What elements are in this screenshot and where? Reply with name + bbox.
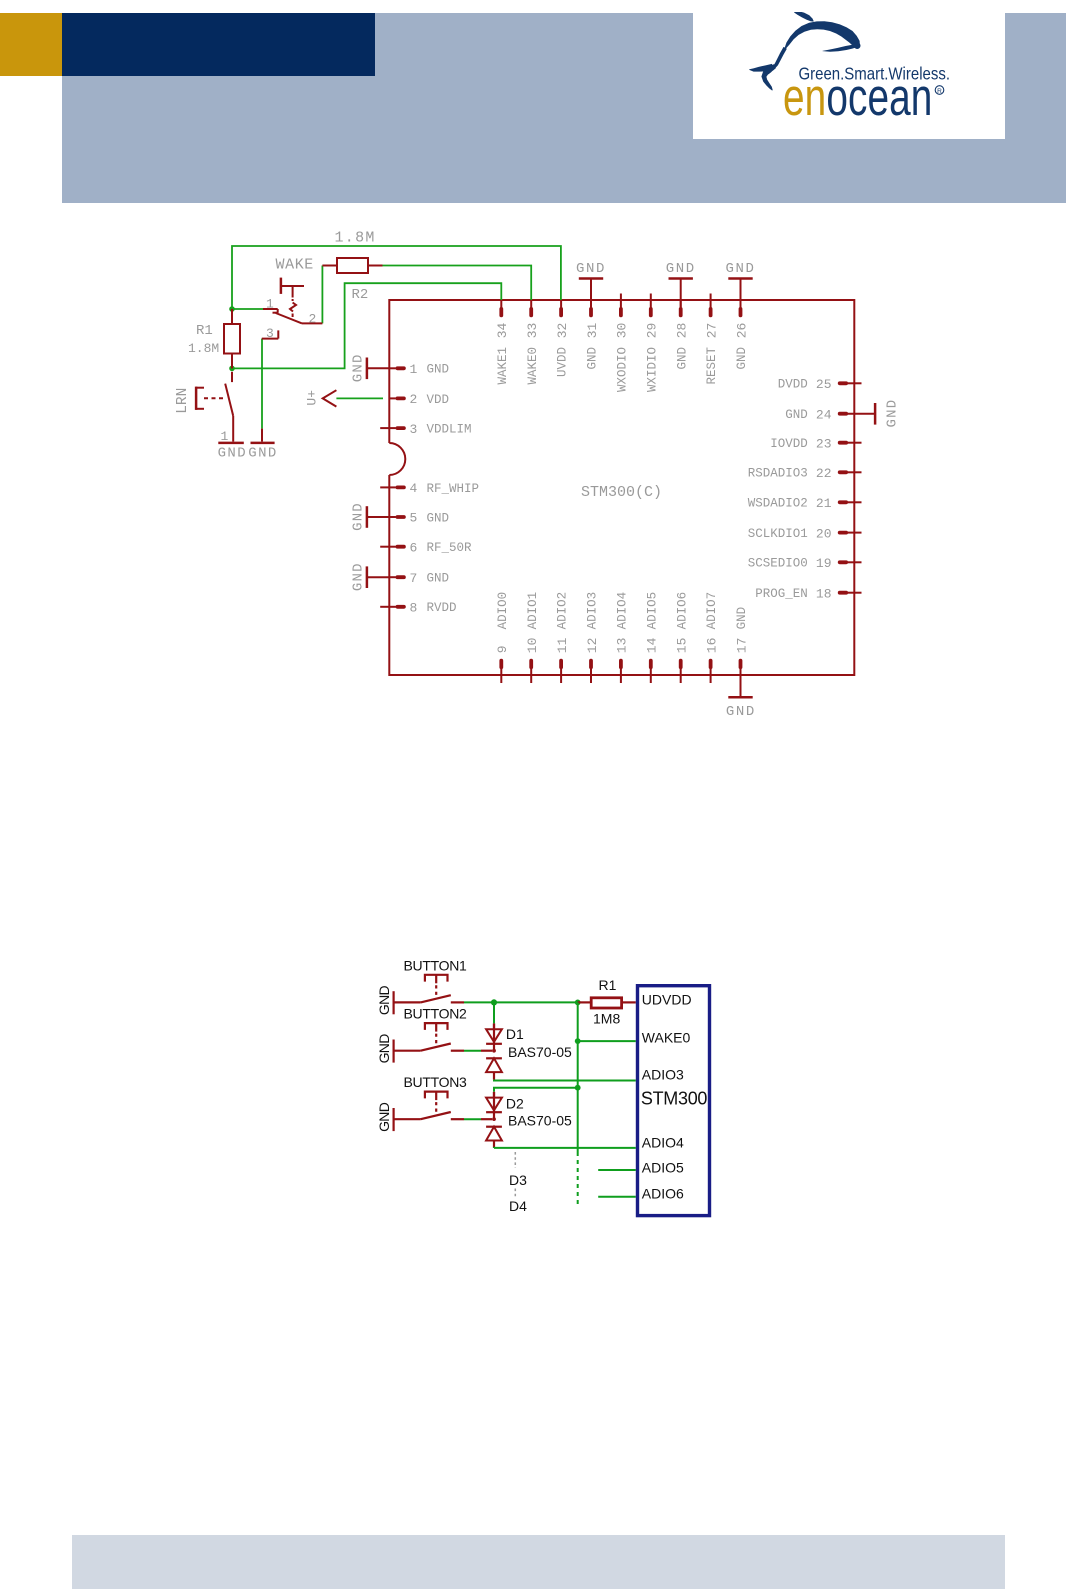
- dashed gray line through D3 D4: [514, 1152, 516, 1199]
- dolphin belly line: [773, 47, 787, 68]
- svg-text:1.8M: 1.8M: [335, 230, 376, 247]
- svg-text:WXODIO: WXODIO: [616, 347, 630, 392]
- svg-text:1.8M: 1.8M: [188, 341, 219, 356]
- pin 1 GND (left): [389, 362, 449, 377]
- svg-text:6: 6: [410, 540, 418, 555]
- svg-text:GND: GND: [427, 511, 450, 525]
- svg-text:9: 9: [495, 645, 510, 653]
- wire switch pin2 to R2 left lead: [321, 266, 323, 324]
- wire net 1.8M top: R1.1 / switch pin1 to UVDD pin32: [232, 246, 561, 309]
- svg-text:VDD: VDD: [427, 393, 450, 407]
- svg-text:ADIO5: ADIO5: [642, 1159, 684, 1175]
- svg-text:WAKE: WAKE: [276, 257, 314, 274]
- pin 31 GND (top): [585, 300, 600, 370]
- svg-text:STM300: STM300: [641, 1088, 708, 1108]
- ground symbol above pin at x=591: [576, 261, 606, 307]
- pin 18 PROG_EN (right): [755, 586, 861, 601]
- svg-text:D3: D3: [509, 1172, 527, 1188]
- svg-text:RF_WHIP: RF_WHIP: [427, 482, 480, 496]
- svg-text:20: 20: [816, 526, 832, 541]
- wire button2 to D1 center: [464, 1050, 492, 1052]
- wire ADIO6 stub: [598, 1196, 636, 1198]
- svg-text:GND: GND: [376, 1034, 392, 1064]
- ground symbol above pin at x=681: [666, 261, 696, 307]
- svg-text:U+: U+: [304, 390, 319, 406]
- svg-text:32: 32: [555, 323, 570, 339]
- header navy block: [62, 13, 375, 76]
- svg-text:28: 28: [675, 323, 690, 339]
- svg-text:R1: R1: [599, 977, 617, 993]
- pin 12 ADIO3 (bottom): [585, 592, 600, 683]
- svg-text:GND: GND: [218, 446, 247, 462]
- svg-text:4: 4: [410, 481, 418, 496]
- svg-text:GND: GND: [726, 704, 756, 720]
- header blue-gray band: [62, 13, 1066, 203]
- wire switch pin3 to ground: [261, 339, 263, 429]
- svg-text:BAS70-05: BAS70-05: [508, 1044, 572, 1060]
- svg-text:34: 34: [495, 322, 510, 338]
- svg-text:GND: GND: [376, 986, 392, 1016]
- svg-text:23: 23: [816, 436, 832, 451]
- svg-text:17: 17: [734, 638, 749, 654]
- pin 10 ADIO1 (bottom): [525, 592, 540, 683]
- wire switch pin1: [232, 308, 263, 310]
- pin 25 DVDD (right): [778, 377, 862, 392]
- pin 28 GND (top): [675, 300, 690, 370]
- pin 11 ADIO2 (bottom): [555, 592, 570, 683]
- pin 21 WSDADIO2 (right): [748, 496, 862, 511]
- pin 15 ADIO6 (bottom): [675, 592, 690, 683]
- switch S1 actuator: [281, 278, 304, 317]
- svg-text:11: 11: [555, 637, 570, 653]
- diode D1 BAS70-05 (dual): [486, 1024, 502, 1080]
- pushbutton BUTTON1: [376, 957, 467, 1015]
- svg-text:WSDADIO2: WSDADIO2: [748, 497, 808, 511]
- svg-text:WAKE0: WAKE0: [642, 1029, 691, 1045]
- registered mark: [935, 86, 944, 95]
- svg-text:10: 10: [525, 638, 540, 654]
- footer band: [72, 1535, 1005, 1589]
- svg-text:33: 33: [525, 323, 540, 339]
- pushbutton BUTTON3: [376, 1074, 467, 1132]
- svg-text:30: 30: [615, 323, 630, 339]
- IC U2 STM300 box (lower): [638, 986, 710, 1216]
- wire vertical net dashed continuation: [577, 1152, 579, 1206]
- ground symbol under LRN switch: [218, 443, 247, 462]
- pin 4 RF_WHIP (left): [380, 481, 479, 496]
- svg-text:RVDD: RVDD: [427, 601, 457, 615]
- pin 33 WAKE0 (top): [525, 300, 540, 385]
- svg-text:ADIO3: ADIO3: [642, 1067, 684, 1083]
- pin 30 WXODIO (top): [615, 294, 630, 393]
- ground symbol left of pin at y=577: [351, 562, 390, 591]
- pin 29 WXIDIO (top): [645, 294, 660, 393]
- svg-text:ADIO1: ADIO1: [526, 592, 540, 630]
- switch S2 actuator: [196, 387, 226, 410]
- wire D2 top to vertical net: [494, 1088, 578, 1092]
- pushbutton BUTTON2: [376, 1006, 467, 1064]
- wire VDD pin2 to U+: [336, 397, 383, 399]
- svg-text:GND: GND: [376, 1102, 392, 1132]
- header orange block: [0, 13, 62, 76]
- dolphin flipper down arm: [761, 67, 772, 91]
- svg-text:BUTTON3: BUTTON3: [404, 1074, 467, 1090]
- svg-text:DVDD: DVDD: [778, 378, 808, 392]
- pin 20 SCLKDIO1 (right): [748, 526, 862, 541]
- svg-text:ADIO6: ADIO6: [675, 592, 689, 630]
- dolphin mouth line: [822, 45, 856, 52]
- diode D2 top lead (red): [493, 1092, 495, 1098]
- dolphin body arc: [784, 21, 860, 49]
- svg-text:ADIO6: ADIO6: [642, 1185, 684, 1201]
- svg-text:31: 31: [585, 322, 600, 338]
- svg-text:GND: GND: [576, 261, 606, 277]
- svg-text:ADIO3: ADIO3: [586, 592, 600, 630]
- diode D1 top lead (red): [493, 1023, 495, 1029]
- pin 13 ADIO4 (bottom): [615, 592, 630, 683]
- wire button1 to junction and R1: [464, 1001, 578, 1003]
- enocean dolphin logo: [749, 11, 860, 90]
- svg-text:ADIO4: ADIO4: [642, 1134, 684, 1150]
- svg-text:1M8: 1M8: [593, 1011, 620, 1027]
- switch S2 LRN: [225, 372, 233, 442]
- svg-text:GND: GND: [427, 363, 450, 377]
- svg-text:GND: GND: [735, 347, 749, 370]
- dolphin nose knob: [854, 42, 861, 49]
- pin 23 IOVDD (right): [770, 436, 861, 451]
- wire vertical net R1 to WAKE0 and D2: [577, 1002, 579, 1152]
- svg-text:LRN: LRN: [175, 388, 191, 414]
- wire button3 to D2 center: [464, 1118, 492, 1120]
- svg-text:2: 2: [309, 312, 317, 327]
- svg-text:3: 3: [410, 422, 418, 437]
- svg-text:BAS70-05: BAS70-05: [508, 1112, 572, 1128]
- svg-text:ADIO4: ADIO4: [616, 592, 630, 630]
- diode D2 BAS70-05 (dual): [486, 1092, 502, 1148]
- ground symbol left of pin at y=368: [351, 353, 390, 382]
- svg-text:GND: GND: [675, 347, 689, 370]
- svg-text:21: 21: [816, 496, 832, 511]
- resistor R1 body: [224, 309, 240, 368]
- pin 16 ADIO7 (bottom): [704, 592, 719, 683]
- svg-text:GND: GND: [351, 562, 367, 591]
- pin 7 GND (left): [389, 571, 449, 586]
- resistor R1 (lower) body: [578, 998, 636, 1008]
- svg-text:GND: GND: [586, 347, 600, 370]
- pin 19 SCSEDIO0 (right): [748, 556, 862, 571]
- pin 6 RF_50R (left): [380, 540, 472, 555]
- svg-text:GND: GND: [666, 261, 696, 277]
- svg-text:GND: GND: [735, 607, 749, 630]
- wire ADIO5 stub: [598, 1169, 636, 1171]
- svg-text:UVDD: UVDD: [556, 347, 570, 377]
- svg-text:PROG_EN: PROG_EN: [755, 587, 808, 601]
- svg-text:14: 14: [645, 637, 660, 653]
- svg-text:29: 29: [645, 323, 660, 339]
- svg-text:BUTTON1: BUTTON1: [404, 957, 467, 973]
- pin 32 UVDD (top): [555, 300, 570, 377]
- wire junction dot D2 net: [575, 1085, 581, 1091]
- svg-text:25: 25: [816, 377, 832, 392]
- pin 26 GND (top): [734, 300, 749, 370]
- svg-text:RESET: RESET: [705, 347, 719, 385]
- svg-text:5: 5: [410, 511, 418, 526]
- ground symbol left of pin at y=517: [351, 502, 390, 531]
- dolphin flipper left arm: [749, 64, 773, 72]
- svg-text:16: 16: [704, 638, 719, 654]
- svg-text:1: 1: [266, 297, 274, 312]
- wire vertical net to D1: [493, 1002, 495, 1023]
- IC U1 STM300(C) outline: [389, 300, 854, 675]
- svg-text:SCSEDIO0: SCSEDIO0: [748, 557, 808, 571]
- switch S1 WAKE: [263, 309, 322, 323]
- pin 27 RESET (top): [704, 294, 719, 385]
- svg-text:24: 24: [816, 407, 832, 422]
- pin 34 WAKE1 (top): [495, 300, 510, 385]
- svg-text:STM300(C): STM300(C): [581, 484, 662, 501]
- pin 5 GND (left): [389, 511, 449, 526]
- svg-text:GND: GND: [725, 261, 755, 277]
- svg-text:WXIDIO: WXIDIO: [645, 347, 659, 392]
- svg-text:ADIO0: ADIO0: [496, 592, 510, 630]
- svg-text:18: 18: [816, 586, 832, 601]
- svg-text:D2: D2: [506, 1095, 524, 1111]
- pin 14 ADIO5 (bottom): [645, 592, 660, 683]
- svg-text:WAKE0: WAKE0: [526, 347, 540, 385]
- svg-text:BUTTON2: BUTTON2: [404, 1006, 467, 1022]
- wire R2 right lead to WAKE0 pin33: [383, 266, 532, 301]
- svg-text:GND: GND: [351, 353, 367, 382]
- svg-text:RSDADIO3: RSDADIO3: [748, 467, 808, 481]
- pin 9 ADIO0 (bottom): [495, 592, 510, 683]
- svg-text:R1: R1: [196, 323, 213, 339]
- dolphin flipper elbow: [765, 64, 776, 74]
- svg-text:7: 7: [410, 571, 418, 586]
- svg-text:IOVDD: IOVDD: [770, 437, 808, 451]
- svg-text:D1: D1: [506, 1026, 524, 1042]
- svg-text:GND: GND: [351, 502, 367, 531]
- svg-text:GND: GND: [248, 446, 277, 462]
- svg-text:ADIO7: ADIO7: [705, 592, 719, 630]
- svg-text:SCLKDIO1: SCLKDIO1: [748, 527, 808, 541]
- svg-text:1: 1: [221, 429, 229, 444]
- wire D1 bottom to ADIO3: [494, 1079, 636, 1082]
- svg-text:13: 13: [615, 638, 630, 654]
- svg-text:GND: GND: [885, 399, 901, 428]
- wire WAKE0: [578, 1040, 636, 1042]
- wire junction dot at R1.2: [229, 366, 235, 372]
- svg-text:R2: R2: [352, 287, 369, 303]
- wire junction dot button1/D1: [491, 999, 497, 1005]
- svg-text:22: 22: [816, 466, 832, 481]
- svg-text:RF_50R: RF_50R: [427, 541, 473, 555]
- pin 8 RVDD (left): [380, 601, 456, 616]
- svg-text:27: 27: [704, 323, 719, 339]
- wire junction dot at R1.1: [229, 306, 235, 312]
- svg-text:12: 12: [585, 638, 600, 654]
- pin 24 GND (right): [785, 407, 875, 422]
- wire D2 bottom to ADIO4: [494, 1147, 636, 1149]
- svg-text:1: 1: [410, 362, 418, 377]
- svg-text:ADIO2: ADIO2: [556, 592, 570, 630]
- svg-text:GND: GND: [427, 572, 450, 586]
- node U+ supply arrow: [304, 390, 336, 407]
- svg-text:8: 8: [410, 601, 418, 616]
- ground symbol under switch pin3: [248, 429, 277, 462]
- switch S1 pin3 stub: [262, 330, 279, 338]
- ground symbol below pin 17: [726, 697, 756, 720]
- svg-text:D4: D4: [509, 1198, 527, 1214]
- svg-text:26: 26: [734, 323, 749, 339]
- wire R1.2 to WAKE1 pin34: [232, 283, 501, 368]
- svg-text:19: 19: [816, 556, 832, 571]
- svg-text:ADIO5: ADIO5: [645, 592, 659, 630]
- svg-text:WAKE1: WAKE1: [496, 347, 510, 385]
- pin 3 VDDLIM (left): [380, 422, 471, 437]
- svg-text:VDDLIM: VDDLIM: [427, 423, 472, 437]
- svg-text:GND: GND: [785, 408, 808, 422]
- pin 17 GND (bottom): [734, 607, 749, 696]
- wire junction dot WAKE0: [575, 1038, 581, 1044]
- pin 2 VDD (left): [389, 392, 449, 407]
- pin 22 RSDADIO3 (right): [748, 466, 862, 481]
- ground symbol right of pin 24: [875, 399, 901, 428]
- logo white box: [693, 12, 1005, 139]
- wire junction dot at R1 lead: [575, 1000, 581, 1006]
- svg-text:2: 2: [410, 392, 418, 407]
- svg-text:15: 15: [675, 638, 690, 654]
- dolphin tail fluke: [794, 11, 814, 21]
- ground symbol above pin at x=740: [725, 261, 755, 307]
- svg-text:UDVDD: UDVDD: [642, 991, 692, 1007]
- resistor R2 body: [322, 258, 382, 273]
